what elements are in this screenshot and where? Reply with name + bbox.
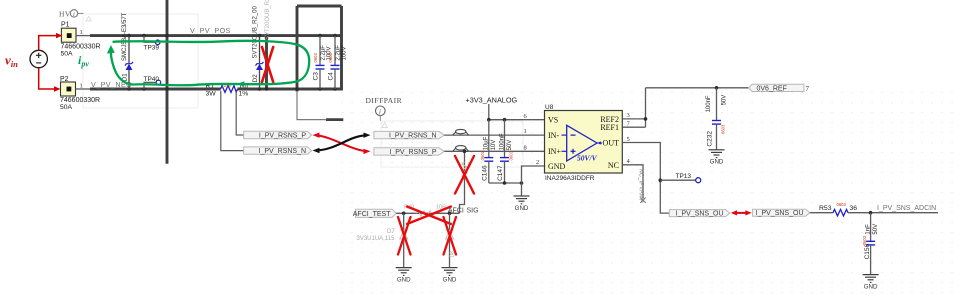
svg-text:AFCI_TEST: AFCI_TEST xyxy=(353,211,391,218)
ground symbol under C146 C147 xyxy=(514,196,530,204)
label v_in xyxy=(5,53,18,70)
red X over D7 xyxy=(398,217,411,255)
port I_PV_RSNS_P left xyxy=(244,131,312,139)
annotation green mid arrowhead xyxy=(238,81,245,87)
port I_PV_SNS_OU first xyxy=(669,210,730,218)
junction dot REF xyxy=(644,117,648,121)
svg-text:C232: C232 xyxy=(706,131,713,147)
svg-text:SVT20OUB_R2_00: SVT20OUB_R2_00 xyxy=(265,0,271,40)
deleted diode D7 ghost xyxy=(400,230,408,239)
capacitor C3 xyxy=(312,36,332,89)
svg-text:1: 1 xyxy=(524,128,527,135)
svg-text:DIFFPAIR: DIFFPAIR xyxy=(366,96,403,105)
resistor R53 xyxy=(819,202,857,216)
junction dot C232 xyxy=(715,86,719,90)
svg-text:SIG: SIG xyxy=(467,207,479,214)
svg-text:0603: 0603 xyxy=(862,235,867,245)
annotation red crossing arrow P to P xyxy=(313,133,371,155)
svg-text:2: 2 xyxy=(536,159,539,166)
net name AFCI_SIG xyxy=(448,207,479,214)
wire D8 branch xyxy=(449,213,451,267)
svg-text:7: 7 xyxy=(806,85,810,93)
wire AFCI_TEST to AFCI_SIG xyxy=(396,212,459,214)
junction dot TP13 branch xyxy=(659,178,663,182)
wire bus vertical D xyxy=(340,6,343,91)
svg-text:1%: 1% xyxy=(239,91,249,98)
room outline left xyxy=(83,14,198,108)
connector P1 xyxy=(61,22,101,58)
junction dot D8 xyxy=(448,212,452,216)
directive HV xyxy=(59,10,84,19)
wire bus vertical A xyxy=(166,0,169,164)
svg-text:GND: GND xyxy=(443,277,457,284)
capacitor C4 xyxy=(327,36,347,89)
svg-text:1: 1 xyxy=(80,29,83,36)
svg-text:36: 36 xyxy=(850,205,858,212)
port I_PV_SNS_OU second xyxy=(753,209,810,217)
svg-text:INA296A3IDDFR: INA296A3IDDFR xyxy=(545,175,595,182)
svg-text:0603: 0603 xyxy=(508,150,513,160)
svg-text:P1: P1 xyxy=(61,22,70,29)
svg-text:SMCJ58A-E3/57T: SMCJ58A-E3/57T xyxy=(122,12,128,61)
svg-text:IN+: IN+ xyxy=(548,147,561,156)
svg-text:1nF: 1nF xyxy=(866,224,872,235)
svg-text:100nF: 100nF xyxy=(499,133,505,150)
annotation i_pv label xyxy=(78,53,89,69)
svg-text:100V: 100V xyxy=(342,46,348,60)
junction dot D7 xyxy=(402,212,406,216)
svg-text:D7: D7 xyxy=(387,229,395,235)
svg-text:0V6_REF: 0V6_REF xyxy=(757,85,787,92)
svg-text:GND: GND xyxy=(515,205,529,212)
resistor R1 shunt xyxy=(206,83,249,98)
wire I_PV_RSNS_N to U8 IN- xyxy=(444,134,544,136)
wire bus V_PV_NEG left segment xyxy=(90,88,221,91)
wire to R53 xyxy=(810,212,833,214)
junction dot C156 xyxy=(869,211,873,215)
diode D1 TVS xyxy=(122,12,133,89)
svg-text:IN-: IN- xyxy=(548,131,559,140)
capacitor C232 xyxy=(706,88,727,150)
wire bus bottom stub xyxy=(326,118,343,121)
svg-text:AFCI: AFCI xyxy=(448,207,464,214)
deleted resistor R40 ghost xyxy=(404,204,446,216)
test point TP13 xyxy=(660,173,700,183)
svg-text:GND: GND xyxy=(864,284,878,291)
junction dots on POS xyxy=(127,34,337,38)
wire bus V_PV_POS xyxy=(90,34,342,37)
ground symbol under C232 xyxy=(709,150,725,158)
svg-text:C146: C146 xyxy=(481,165,488,181)
connector P2 xyxy=(60,76,100,111)
wire D7 branch xyxy=(403,213,405,267)
junction dots on VS wire xyxy=(487,118,506,122)
power net +3V3_ANALOG xyxy=(466,96,518,120)
svg-text:3W: 3W xyxy=(206,91,217,98)
wire bus vertical B xyxy=(265,36,268,91)
svg-text:OUT: OUT xyxy=(603,138,620,147)
red X over R40 xyxy=(407,207,451,225)
wire cap bottoms to GND xyxy=(489,182,522,184)
svg-text:8: 8 xyxy=(524,144,527,151)
U8 pin numbers right xyxy=(627,112,631,165)
wire NC pin 4 xyxy=(622,165,643,199)
annotation green loop arrowhead xyxy=(107,45,115,54)
svg-text:D2: D2 xyxy=(252,74,259,83)
svg-text:50V: 50V xyxy=(873,224,879,235)
wire I_PV_RSNS_P to U8 IN+ xyxy=(444,150,544,152)
svg-text:HV: HV xyxy=(59,10,71,19)
test point TP40 xyxy=(144,76,161,89)
wire to 0V6_REF xyxy=(646,87,749,89)
diffpair directive symbol P xyxy=(453,146,469,152)
wire bus vertical C xyxy=(296,6,299,92)
wire U8 GND pin 2 xyxy=(522,166,545,196)
svg-text:C4: C4 xyxy=(327,72,334,81)
red X over D8 xyxy=(444,217,457,255)
directive DIFFPAIR xyxy=(366,96,403,121)
capacitor C146 xyxy=(480,120,497,183)
wire bus V_PV_NEG right segment xyxy=(237,88,342,91)
wire red annotation to P2 xyxy=(39,68,61,92)
port 0V6_REF xyxy=(749,84,805,92)
svg-text:I_PV_SNS_OU: I_PV_SNS_OU xyxy=(756,210,804,217)
svg-text:I_PV_RSNS_N: I_PV_RSNS_N xyxy=(389,133,436,140)
capacitor C147 xyxy=(497,120,513,183)
wire REF vertical xyxy=(645,88,647,127)
svg-text:VS: VS xyxy=(548,116,558,125)
svg-text:50A: 50A xyxy=(60,104,73,111)
ground symbol under D7 xyxy=(396,268,412,276)
svg-text:746600330R: 746600330R xyxy=(60,97,100,104)
test point TP39 xyxy=(144,36,161,52)
svg-text:50A: 50A xyxy=(61,51,74,58)
svg-text:I_PV_SNS_ADCIN: I_PV_SNS_ADCIN xyxy=(877,205,936,212)
red X over AFCI_SIG resistor xyxy=(455,156,474,194)
svg-text:0603: 0603 xyxy=(480,150,485,160)
deleted diode D8 ghost xyxy=(446,230,454,239)
svg-text:I_PV_SNS_OU: I_PV_SNS_OU xyxy=(676,211,724,218)
svg-text:REF1: REF1 xyxy=(600,123,619,132)
svg-text:50V: 50V xyxy=(721,95,727,106)
junction dots on NEG xyxy=(127,87,337,91)
svg-text:GND: GND xyxy=(710,159,724,166)
wire kelvin sense right to I_PV_RSNS_P xyxy=(236,91,244,135)
wire bus top horizontal xyxy=(297,5,342,8)
port AFCI_TEST xyxy=(353,209,396,218)
svg-text:R53: R53 xyxy=(819,205,832,212)
svg-text:0603: 0603 xyxy=(313,53,318,63)
svg-text:i: i xyxy=(73,11,75,18)
svg-text:NC_IPVAMP: NC_IPVAMP xyxy=(637,169,643,203)
svg-text:I_PV_RSNS_N: I_PV_RSNS_N xyxy=(259,148,306,155)
svg-text:0603: 0603 xyxy=(721,124,726,134)
U8 pin numbers left xyxy=(524,113,540,166)
deleted resistor ghost vertical xyxy=(462,162,472,178)
diffpair directive symbol N xyxy=(453,129,469,134)
svg-text:10V: 10V xyxy=(491,140,497,151)
ground symbol under C156 xyxy=(863,275,879,283)
junction dots on ground wire xyxy=(503,181,524,185)
svg-text:GND: GND xyxy=(397,277,411,284)
svg-text:TP39: TP39 xyxy=(144,45,160,52)
wire kelvin sense left to I_PV_RSNS_N xyxy=(221,91,244,151)
port I_PV_RSNS_N right xyxy=(374,131,444,139)
wire REF1 xyxy=(622,126,645,128)
op-amp U8 xyxy=(545,104,623,182)
svg-text:C3: C3 xyxy=(312,72,319,81)
ground symbol under D8 xyxy=(442,268,458,276)
svg-text:TP40: TP40 xyxy=(144,76,160,83)
svg-text:50V: 50V xyxy=(507,140,513,151)
voltage source annotation xyxy=(30,50,47,67)
svg-text:SVT20OUB_R2_00: SVT20OUB_R2_00 xyxy=(253,5,259,58)
svg-text:3: 3 xyxy=(627,112,630,119)
svg-text:TP13: TP13 xyxy=(676,173,692,180)
svg-text:10µF: 10µF xyxy=(484,136,490,150)
svg-text:+3V3_ANALOG: +3V3_ANALOG xyxy=(466,96,518,105)
svg-text:3V3U1UA,115: 3V3U1UA,115 xyxy=(357,236,396,242)
svg-text:C147: C147 xyxy=(497,165,504,181)
svg-text:i: i xyxy=(379,108,381,116)
svg-text:NC: NC xyxy=(608,161,619,170)
svg-text:100nF: 100nF xyxy=(706,95,712,112)
svg-text:746600330R: 746600330R xyxy=(61,44,101,51)
svg-text:1: 1 xyxy=(80,83,83,90)
svg-text:I_PV_RSNS_P: I_PV_RSNS_P xyxy=(259,133,306,140)
room outline right xyxy=(381,121,523,167)
red X over D2 xyxy=(262,47,273,82)
wire I_PV_SNS_ADCIN xyxy=(848,212,938,214)
port I_PV_RSNS_P right xyxy=(374,148,444,156)
junction dot on RSNS_P wire xyxy=(463,150,467,154)
wire +3V3 to U8 VS xyxy=(489,119,545,121)
wire OUT pin 5 xyxy=(622,143,669,214)
svg-text:I_PV_RSNS_P: I_PV_RSNS_P xyxy=(389,149,436,156)
svg-text:GND: GND xyxy=(548,162,566,171)
annotation red double arrow xyxy=(731,210,752,215)
port I_PV_RSNS_N left xyxy=(244,147,312,155)
svg-text:V_PV_POS: V_PV_POS xyxy=(190,26,231,35)
capacitor C156 xyxy=(862,213,879,275)
annotation black crossing arrow N to N xyxy=(313,133,371,154)
svg-text:0603: 0603 xyxy=(837,202,847,207)
wire red annotation to P1 xyxy=(39,33,63,50)
wire thin L below NEG xyxy=(297,91,327,120)
wire AFCI_SIG vertical to I_PV_RSNS_P xyxy=(460,151,465,213)
diode D2 TVS crossed out xyxy=(252,0,271,89)
svg-text:0603: 0603 xyxy=(328,53,333,63)
svg-text:50V/V: 50V/V xyxy=(577,154,598,163)
wire REF2 xyxy=(622,118,645,120)
annotation green current loop xyxy=(111,41,309,85)
no connect cross xyxy=(640,198,645,203)
svg-text:5: 5 xyxy=(627,136,630,143)
